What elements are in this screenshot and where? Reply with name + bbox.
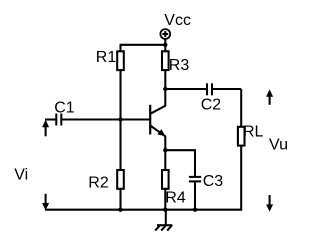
svg-text:R4: R4 bbox=[165, 190, 186, 207]
wire R3 bottom to collector node bbox=[164, 70, 166, 89]
capacitor C1 bbox=[45, 114, 121, 126]
node R2 bottom junction bbox=[118, 208, 122, 212]
node R4 bottom junction bbox=[163, 208, 167, 212]
svg-text:R1: R1 bbox=[96, 49, 117, 66]
wire top horizontal to R1 bbox=[121, 45, 166, 52]
ground bbox=[155, 210, 172, 231]
resistor RL bbox=[238, 127, 245, 146]
power terminal Vcc bbox=[160, 29, 170, 39]
wire emitter to C3 bbox=[165, 150, 195, 176]
node emitter junction bbox=[163, 148, 167, 152]
wire R4 bottom bbox=[164, 189, 166, 210]
resistor R3 bbox=[162, 51, 169, 70]
svg-text:C3: C3 bbox=[203, 173, 224, 190]
svg-text:C2: C2 bbox=[201, 96, 222, 113]
svg-text:Vcc: Vcc bbox=[164, 12, 191, 29]
output arrow down (Vu minus) bbox=[266, 195, 273, 212]
resistor R1 bbox=[117, 51, 124, 70]
svg-text:R2: R2 bbox=[88, 174, 109, 191]
capacitor C2 bbox=[207, 83, 241, 95]
resistor R4 bbox=[162, 170, 169, 189]
node collector junction bbox=[163, 87, 167, 91]
wire collector to C2 bbox=[165, 88, 206, 90]
svg-text:R3: R3 bbox=[169, 57, 190, 74]
output arrow up (Vu plus) bbox=[266, 89, 273, 104]
svg-text:Vi: Vi bbox=[14, 166, 28, 183]
svg-text:RL: RL bbox=[243, 124, 264, 141]
wire R2 bottom bbox=[119, 189, 121, 210]
svg-text:C1: C1 bbox=[54, 100, 75, 117]
wire Vcc circle to node bbox=[164, 39, 166, 51]
transistor Q1 bbox=[121, 89, 166, 150]
input arrow down (Vi bottom terminal) bbox=[42, 194, 49, 211]
node junction below Vcc bbox=[163, 43, 167, 47]
resistor R2 bbox=[117, 170, 124, 189]
wire R1 bottom to base rail bbox=[119, 70, 121, 170]
node C3 bottom junction bbox=[193, 208, 197, 212]
wire right rail down to RL bbox=[240, 89, 242, 127]
wire RL bottom to bottom rail bbox=[45, 146, 241, 210]
capacitor C3 bbox=[189, 177, 201, 210]
node base junction bbox=[118, 117, 122, 121]
input arrow up (Vi top terminal) bbox=[42, 120, 49, 137]
svg-text:Vu: Vu bbox=[269, 136, 288, 153]
wire emitter to R4 bbox=[164, 150, 166, 170]
